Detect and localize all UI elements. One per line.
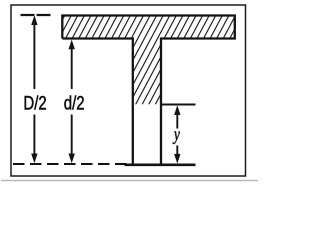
dim y upper arrow	[174, 105, 180, 128]
top reference dash line	[21, 14, 52, 16]
dim D/2 upper arrow	[31, 15, 37, 89]
scan edge artifact	[1, 180, 258, 182]
svg-text:D/2: D/2	[23, 93, 46, 114]
dim D/2 lower arrow	[31, 115, 37, 164]
bottom solid baseline under web (y datum bottom)	[125, 164, 196, 167]
y datum top line	[161, 104, 196, 106]
svg-text:y: y	[172, 125, 180, 144]
dim d/2 upper arrow	[69, 40, 75, 90]
bottom dashed baseline	[13, 163, 130, 165]
dim d/2 lower arrow	[69, 115, 75, 164]
svg-text:d/2: d/2	[64, 93, 85, 114]
dim y lower arrow	[174, 146, 180, 164]
T-section outline	[62, 16, 235, 165]
T-section hatched fill	[62, 16, 235, 105]
